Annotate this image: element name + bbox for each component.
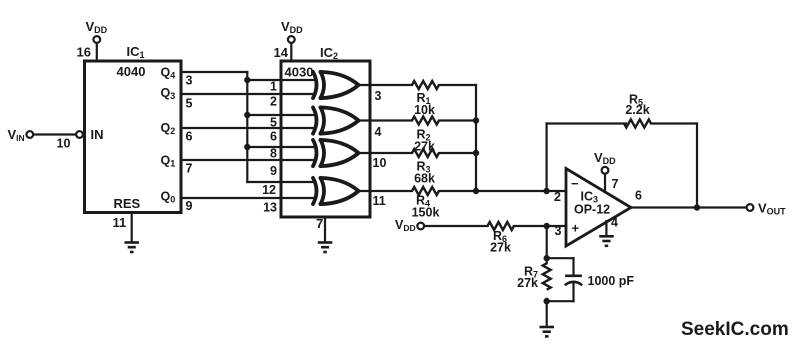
svg-text:8: 8 bbox=[270, 147, 277, 161]
svg-text:68k: 68k bbox=[414, 172, 435, 186]
svg-text:150k: 150k bbox=[412, 206, 440, 220]
svg-text:4030: 4030 bbox=[285, 65, 314, 80]
svg-text:1: 1 bbox=[270, 80, 277, 94]
svg-text:SeekIC.com: SeekIC.com bbox=[681, 319, 789, 340]
svg-text:9: 9 bbox=[270, 164, 277, 178]
svg-text:4: 4 bbox=[611, 216, 618, 230]
svg-text:11: 11 bbox=[113, 215, 127, 230]
svg-text:3: 3 bbox=[186, 74, 193, 88]
svg-text:−: − bbox=[571, 176, 579, 191]
svg-text:27k: 27k bbox=[490, 241, 511, 255]
svg-text:+: + bbox=[572, 221, 580, 236]
svg-text:13: 13 bbox=[263, 201, 277, 215]
svg-text:16: 16 bbox=[77, 45, 91, 60]
svg-text:9: 9 bbox=[186, 199, 193, 213]
svg-text:7: 7 bbox=[316, 216, 323, 231]
svg-text:12: 12 bbox=[262, 183, 276, 197]
svg-text:10k: 10k bbox=[414, 103, 435, 117]
svg-text:OP-12: OP-12 bbox=[574, 203, 610, 217]
svg-text:10: 10 bbox=[57, 137, 71, 151]
svg-text:27k: 27k bbox=[517, 276, 538, 290]
svg-text:7: 7 bbox=[612, 177, 619, 191]
svg-text:RES: RES bbox=[114, 196, 141, 211]
svg-text:IN: IN bbox=[91, 127, 104, 142]
svg-text:7: 7 bbox=[186, 162, 193, 176]
svg-text:11: 11 bbox=[373, 194, 386, 208]
svg-text:5: 5 bbox=[186, 97, 193, 111]
svg-text:3: 3 bbox=[555, 224, 562, 238]
svg-text:14: 14 bbox=[274, 45, 289, 60]
svg-text:6: 6 bbox=[270, 130, 277, 144]
svg-text:6: 6 bbox=[186, 130, 193, 144]
svg-text:4040: 4040 bbox=[117, 64, 146, 79]
svg-text:2: 2 bbox=[270, 95, 277, 109]
svg-text:27k: 27k bbox=[414, 140, 435, 154]
svg-text:6: 6 bbox=[635, 189, 642, 203]
svg-text:4: 4 bbox=[375, 125, 382, 139]
svg-text:10: 10 bbox=[373, 156, 387, 170]
svg-text:2.2k: 2.2k bbox=[625, 103, 649, 117]
svg-text:2: 2 bbox=[554, 190, 561, 204]
svg-text:1000 pF: 1000 pF bbox=[588, 274, 635, 288]
svg-text:5: 5 bbox=[270, 116, 277, 130]
svg-text:3: 3 bbox=[375, 89, 382, 103]
